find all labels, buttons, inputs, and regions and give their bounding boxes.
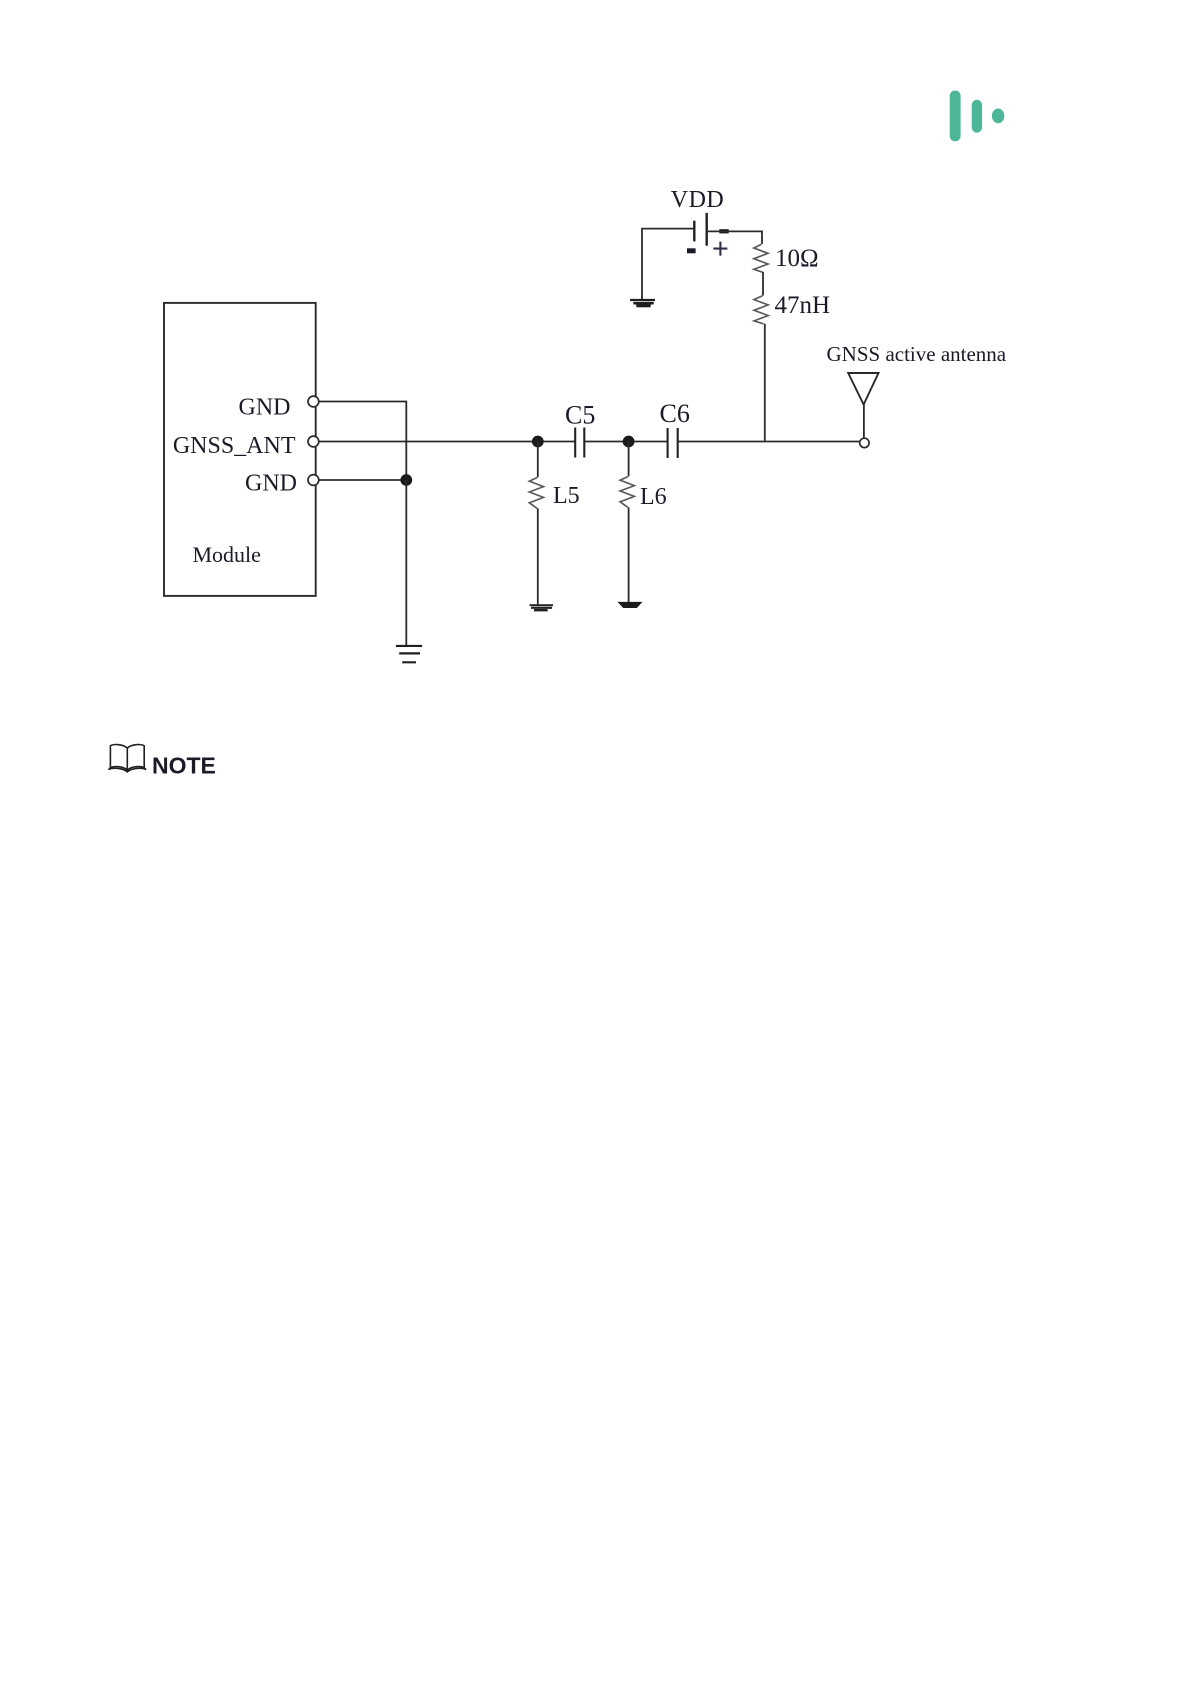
pin circle GNSS_ANT xyxy=(308,436,319,447)
wire RF line segment 3 xyxy=(678,441,860,443)
svg-text:C5: C5 xyxy=(565,401,595,430)
svg-text:GNSS active antenna: GNSS active antenna xyxy=(827,342,1007,366)
wire GND top pin xyxy=(319,402,407,481)
module U1 box xyxy=(164,303,316,596)
wire GND bottom pin xyxy=(319,479,407,481)
ground (L6) xyxy=(618,602,643,608)
battery V1 xyxy=(687,213,729,256)
junction GND pins xyxy=(400,474,412,486)
svg-text:L5: L5 xyxy=(553,483,580,509)
wire L5 branch lower xyxy=(537,508,539,604)
junction node L6 xyxy=(623,436,635,448)
svg-text:GND: GND xyxy=(239,394,291,420)
pin circle GND top xyxy=(308,396,319,407)
svg-text:GNSS_ANT: GNSS_ANT xyxy=(173,433,296,459)
capacitor C6 xyxy=(668,428,678,458)
logo xyxy=(950,91,1005,142)
inductor 47nH zigzag xyxy=(754,296,768,324)
svg-text:GND: GND xyxy=(245,471,297,497)
wire battery positive to resistor xyxy=(707,231,762,244)
svg-text:10Ω: 10Ω xyxy=(775,245,819,272)
capacitor C5 xyxy=(575,428,584,458)
inductor L5 zigzag xyxy=(529,477,543,508)
resistor 10R zigzag xyxy=(754,244,768,272)
ground (battery) xyxy=(630,300,655,306)
wire resistor to inductor xyxy=(762,272,764,296)
svg-text:Module: Module xyxy=(193,542,261,567)
inductor L6 zigzag xyxy=(620,476,634,507)
junction node L5 xyxy=(532,436,544,448)
svg-text:L6: L6 xyxy=(640,484,667,510)
note book icon xyxy=(109,745,146,772)
svg-text:47nH: 47nH xyxy=(775,292,831,319)
pin circle GND bottom xyxy=(308,475,319,486)
wire L6 branch upper xyxy=(628,442,630,477)
wire L6 branch lower xyxy=(628,507,630,602)
wire inductor down to RF line xyxy=(764,324,766,443)
wire battery negative to ground xyxy=(642,229,694,300)
wire junction to ground xyxy=(405,480,407,646)
svg-text:NOTE: NOTE xyxy=(152,752,216,778)
wire RF line segment 2 xyxy=(584,441,667,443)
antenna ANT1 xyxy=(848,373,878,438)
ground (module GND) xyxy=(396,646,422,662)
wire RF line segment 1 xyxy=(319,441,576,443)
antenna connector terminal xyxy=(860,438,869,447)
ground (L5) xyxy=(530,605,554,610)
svg-text:C6: C6 xyxy=(660,399,690,428)
svg-text:VDD: VDD xyxy=(671,187,725,213)
wire L5 branch upper xyxy=(537,442,539,478)
